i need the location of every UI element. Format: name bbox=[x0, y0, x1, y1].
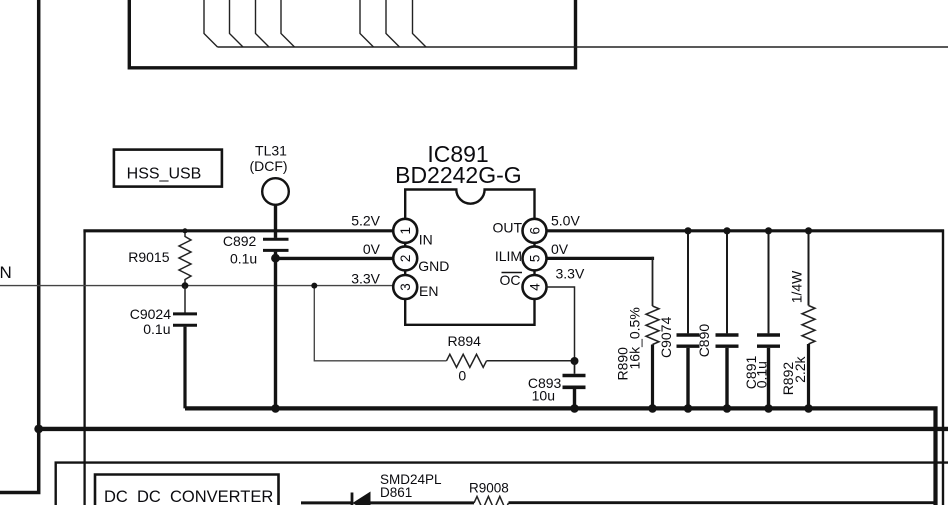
wire left branch vertical (x=85) bbox=[83, 230, 85, 505]
resistor R9015 bbox=[179, 231, 191, 286]
svg-text:HSS_USB: HSS_USB bbox=[127, 166, 202, 183]
junction dot OC/R894/C893 node bbox=[571, 357, 579, 365]
junction dot R9015 bottom bbox=[182, 282, 189, 289]
svg-text:3: 3 bbox=[398, 283, 413, 291]
junction dot GND bus C890 bbox=[723, 404, 732, 413]
wire EN net horizontal (3.3V) bbox=[0, 285, 395, 287]
svg-text:C9074: C9074 bbox=[658, 317, 674, 358]
wire R892 top lead bbox=[808, 231, 810, 306]
section box DC DC CONVERTER outline bbox=[56, 463, 948, 505]
wire TL31 stem to 5.2V bus bbox=[274, 205, 277, 238]
label box DC DC CONVERTER bbox=[95, 475, 279, 505]
wire bottom net left of diode bbox=[301, 501, 352, 504]
capacitor C890 bbox=[716, 333, 739, 336]
svg-text:GND: GND bbox=[418, 258, 449, 274]
wire OUT net right vertical bbox=[942, 230, 944, 505]
svg-text:R9015: R9015 bbox=[128, 249, 169, 265]
pin 5 circle bbox=[523, 246, 547, 270]
svg-text:R894: R894 bbox=[447, 333, 481, 349]
svg-text:C890: C890 bbox=[696, 324, 712, 358]
wire pin lead 6 of top connector bbox=[386, 0, 400, 47]
OC overline bar bbox=[502, 272, 523, 274]
svg-text:OUT: OUT bbox=[493, 220, 523, 236]
junction dot top bus C891 bbox=[765, 227, 772, 234]
op-amp/regulator IC891 body bbox=[405, 190, 534, 325]
svg-text:N: N bbox=[0, 263, 12, 282]
svg-text:0.1u: 0.1u bbox=[754, 361, 770, 388]
capacitor C9024 bbox=[173, 312, 197, 315]
svg-text:5.2V: 5.2V bbox=[351, 213, 380, 229]
svg-text:D861: D861 bbox=[380, 485, 412, 500]
wire pin lead 1 of top connector bbox=[204, 0, 218, 47]
wire C9074 top lead bbox=[687, 231, 689, 334]
capacitor C892 bbox=[263, 238, 289, 241]
pin 2 circle bbox=[393, 246, 417, 270]
svg-text:2.2k: 2.2k bbox=[792, 355, 808, 382]
svg-text:1/4W: 1/4W bbox=[789, 270, 805, 303]
connector block J (top, cut off) bbox=[129, 0, 575, 68]
svg-text:5: 5 bbox=[527, 255, 542, 263]
wire C890 top lead bbox=[726, 231, 728, 334]
junction dot GND bus C893 bbox=[570, 404, 579, 413]
wire R9008 to right bbox=[509, 501, 937, 504]
wire EN branch down to R894 bbox=[314, 286, 446, 361]
wire C9024 top lead bbox=[184, 286, 186, 313]
junction dot GND bus C892 bbox=[271, 404, 280, 413]
wire OC net pin4 bbox=[546, 287, 575, 361]
wire GND bus horizontal bbox=[185, 408, 936, 505]
junction dot top bus C890 bbox=[723, 227, 730, 234]
svg-text:4: 4 bbox=[527, 283, 542, 291]
wire 5.2V net bus (pin1 IN) bbox=[83, 229, 394, 232]
wire C893 top lead bbox=[574, 361, 576, 374]
svg-text:C9024: C9024 bbox=[130, 306, 171, 322]
svg-text:ILIM: ILIM bbox=[495, 248, 522, 264]
svg-text:C892: C892 bbox=[223, 233, 257, 249]
resistor R892 bbox=[802, 306, 815, 345]
svg-text:BD2242G-G: BD2242G-G bbox=[395, 162, 522, 188]
capacitor C9074 bbox=[677, 333, 700, 336]
capacitor C893 bbox=[563, 374, 586, 378]
wire pin lead 4 of top connector bbox=[281, 0, 295, 47]
wire R890 bottom to GND bus bbox=[651, 345, 654, 409]
resistor R890 bbox=[646, 306, 659, 345]
junction dot GND node at C892 bbox=[271, 254, 280, 263]
resistor R9008 bbox=[474, 496, 509, 505]
svg-text:0.1u: 0.1u bbox=[230, 250, 257, 266]
resistor R894 bbox=[447, 354, 487, 367]
pin 3 circle bbox=[393, 275, 417, 299]
svg-text:0V: 0V bbox=[551, 241, 569, 257]
svg-text:OC: OC bbox=[500, 272, 521, 288]
capacitor C891 bbox=[757, 333, 780, 336]
svg-text:0: 0 bbox=[458, 368, 466, 384]
junction dot GND bus R890 bbox=[648, 404, 657, 413]
svg-text:6: 6 bbox=[527, 227, 542, 235]
wire ILIM net to R890 bbox=[546, 257, 655, 260]
svg-text:16k_0.5%: 16k_0.5% bbox=[627, 307, 643, 369]
svg-text:0.1u: 0.1u bbox=[143, 321, 170, 337]
wire pin lead 3 of top connector bbox=[256, 0, 270, 47]
wire left vertical trunk bbox=[0, 0, 39, 493]
junction dot top bus R892 bbox=[805, 227, 812, 234]
junction dot GND bus C9074 bbox=[684, 404, 693, 413]
wire C891 top lead bbox=[768, 231, 770, 334]
wire OUT net 5.0V to right bbox=[546, 229, 945, 232]
svg-text:R9008: R9008 bbox=[469, 481, 509, 496]
diode D861 triangle bbox=[353, 492, 371, 505]
wire R894 to C893 node bbox=[487, 360, 575, 362]
wire C9024 bottom lead to GND bus bbox=[183, 327, 186, 409]
pin 6 circle bbox=[523, 219, 547, 243]
junction dot top bus C9074 bbox=[684, 227, 691, 234]
wire merged bus to right edge bbox=[218, 46, 948, 48]
svg-text:(DCF): (DCF) bbox=[249, 158, 287, 174]
wire GND net vertical down to bus bbox=[274, 258, 277, 408]
junction dot EN branch bbox=[311, 283, 317, 289]
svg-text:DC DC CONVERTER: DC DC CONVERTER bbox=[104, 488, 273, 505]
svg-text:EN: EN bbox=[419, 283, 438, 299]
pin 1 circle bbox=[393, 219, 417, 243]
net label HSS_USB box bbox=[114, 150, 222, 187]
svg-text:3.3V: 3.3V bbox=[556, 266, 585, 282]
junction dot left trunk on bus bbox=[34, 425, 43, 434]
wire C891 bottom lead bbox=[767, 348, 770, 409]
junction dot R9015 top bbox=[183, 228, 188, 233]
svg-text:2: 2 bbox=[398, 255, 413, 263]
diode D861 cathode bar bbox=[351, 493, 354, 505]
test point TL31 circle bbox=[262, 178, 289, 205]
wire diode to R9008 bbox=[371, 501, 475, 504]
svg-text:0V: 0V bbox=[363, 241, 381, 257]
wire pin lead 5 of top connector bbox=[360, 0, 374, 47]
wire R890 top lead bbox=[652, 257, 654, 306]
wire C9074 bottom lead bbox=[686, 348, 689, 409]
svg-text:TL31: TL31 bbox=[255, 142, 287, 158]
junction dot GND bus C891 bbox=[764, 404, 773, 413]
svg-text:1: 1 bbox=[398, 227, 413, 235]
svg-text:10u: 10u bbox=[532, 387, 555, 403]
svg-text:5.0V: 5.0V bbox=[551, 213, 580, 229]
wire C892 bottom to GND net bbox=[274, 252, 277, 260]
wire pin lead 7 of top connector bbox=[413, 0, 427, 47]
pin 4 circle bbox=[523, 275, 547, 299]
wire main horizontal bus y=429 bbox=[39, 427, 948, 431]
wire R892 bottom to GND bus bbox=[807, 344, 810, 408]
svg-text:IN: IN bbox=[419, 232, 433, 248]
wire C890 bottom lead bbox=[725, 348, 728, 409]
wire C893 bottom lead bbox=[573, 389, 576, 408]
wire pin lead 2 of top connector bbox=[230, 0, 244, 47]
junction dot GND bus R892 bbox=[804, 404, 813, 413]
wire GND net pin2 horizontal bbox=[276, 257, 395, 260]
svg-text:3.3V: 3.3V bbox=[351, 271, 380, 287]
